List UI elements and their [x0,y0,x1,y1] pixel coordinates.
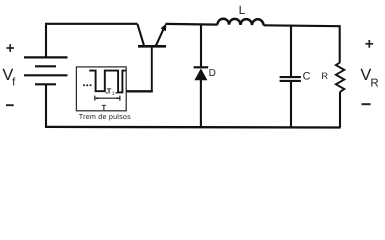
svg-text:Trem de pulsos: Trem de pulsos [79,112,131,121]
wire battery bottom lead [45,84,47,127]
svg-text:R: R [321,71,328,81]
svg-text:R: R [370,78,378,90]
wire top rail (emitter to inductor) [166,23,218,26]
label + (battery positive) [6,44,14,52]
wire diode branch bottom [200,80,202,127]
wire bottom rail [45,126,341,129]
pulse generator box [76,67,126,111]
svg-text:L: L [239,3,246,17]
label + (output positive) [365,40,373,48]
label - (output negative) [362,103,371,105]
battery Vf [24,57,68,84]
inductor L [218,19,264,26]
wire capacitor branch top [290,25,292,76]
svg-text:1: 1 [112,91,115,97]
capacitor C [280,77,301,81]
svg-text:C: C [303,70,311,82]
label - (battery negative) [6,104,14,106]
wire pulse generator output [126,90,153,92]
resistor R (load) [336,63,344,92]
pulse train continuation dots [83,84,92,86]
wire battery top lead [45,24,47,58]
svg-text:T: T [102,103,107,112]
wire diode branch top [200,24,202,66]
dimension T1 (pulse width) [105,92,118,94]
dimension T (period) [95,96,120,101]
diode D (freewheeling) [194,67,209,80]
wire capacitor branch bottom [290,82,292,127]
pulse train waveform [89,71,126,93]
transistor Q1 (NPN switch) [138,23,167,46]
wire right branch top [339,25,341,62]
wire right branch bottom [339,92,341,128]
wire transistor base to pulse generator [151,47,153,91]
wire top rail left (battery + to transistor collector) [45,23,138,25]
svg-text:D: D [209,68,216,79]
wire top rail (inductor to right corner) [264,24,340,27]
